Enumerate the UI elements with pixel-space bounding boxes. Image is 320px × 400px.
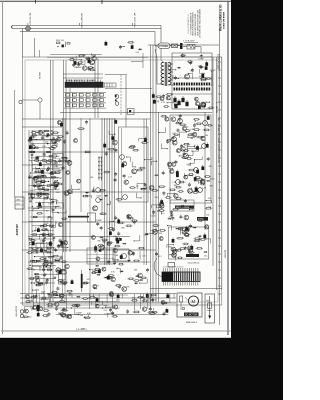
capacitor CLA150 (42, 187, 44, 189)
small box mid (128, 109, 135, 115)
svg-text:AD-R450: AD-R450 (15, 224, 19, 236)
wire stage row LA16 (30, 193, 50, 195)
svg-text:220: 220 (45, 141, 48, 143)
wire w-BSx19 (97, 301, 102, 305)
power rail wire (172, 56, 212, 58)
right upper block outline (170, 115, 211, 203)
resistor R-LAx37 (31, 132, 37, 134)
resistor R-RL33 (159, 230, 166, 232)
resistor R-PS34 (163, 106, 169, 108)
transistor Q-RB10 (188, 246, 192, 250)
capacitor CLA110 (34, 171, 36, 173)
capacitor CLA71 (31, 154, 33, 156)
wire w-RB7 (206, 239, 211, 244)
transistor Q-R186 (184, 154, 189, 159)
transformer T901 core (164, 62, 166, 86)
switch contact S2-16 (86, 104, 90, 107)
wire stage row LB14 (35, 273, 58, 275)
resistor R-RM18 (152, 225, 159, 227)
transistor Q-BSx56 (25, 295, 29, 299)
wire bottom riser 24 (147, 294, 149, 309)
resistor R-LBx39 (35, 284, 42, 286)
resistor R-RA60 (175, 198, 183, 200)
resistor R-LBx16 (47, 256, 54, 258)
capacitor CLB61 (44, 237, 46, 239)
wire w-RA75 (192, 149, 199, 151)
resistor R-LAx51 (53, 182, 60, 184)
resistor R-LBx24 (41, 229, 48, 231)
capacitor C-MLa24 (63, 139, 66, 143)
meter diode D14 (101, 173, 103, 176)
svg-text:1000P: 1000P (176, 228, 182, 230)
capacitor C-LAx77 (47, 133, 50, 137)
wire w-RM23 (180, 228, 185, 233)
resistor R-LBx6 (30, 240, 36, 242)
parts row above board (57, 42, 60, 44)
wire w-CAB24 (137, 193, 142, 198)
transistor Q-MLa23 (59, 294, 64, 299)
capacitor C-CB20 (96, 222, 99, 226)
wire w-RL12 (159, 127, 165, 132)
svg-text:0.022: 0.022 (48, 204, 53, 206)
transistor Q-RA95 (188, 188, 193, 193)
transistor Q-BSx18 (114, 305, 118, 309)
junction LB51 (48, 234, 49, 235)
wire w-TC2 (120, 47, 124, 49)
transistor Q-RB3 (185, 233, 189, 237)
capacitor C-RA92 (183, 152, 186, 156)
wire horizontal bus H17 (148, 44, 219, 46)
capacitor C-CB6 (103, 239, 106, 243)
wire AC line 3 (20, 31, 155, 33)
resistor R-LAx4 (32, 178, 39, 180)
wire vertical bus V13 (152, 45, 154, 302)
transistor Q-CB39 (100, 245, 105, 250)
resistor R-PS32 (155, 96, 162, 98)
electrolytic C-LBx52 (49, 242, 52, 246)
junction LB41 (47, 230, 48, 231)
vertical stub BS21 (91, 302, 93, 305)
capacitor C-RA76 (178, 117, 181, 121)
resistor R-PS20 (200, 79, 207, 81)
wire stage row LB4 (34, 229, 54, 231)
transistor Q-CAL8 (93, 206, 98, 211)
wire bottom riser 18 (106, 294, 108, 303)
capacitor C-PS25 (174, 76, 177, 80)
wire w-CC1 (140, 278, 148, 283)
wire sw link (160, 26, 162, 44)
svg-text:POWER: POWER (159, 45, 168, 48)
capacitor C-TL11 (87, 67, 90, 71)
junction LB140 (45, 274, 46, 275)
diode D-RA85 (206, 180, 210, 182)
transistor Q-MLc17 (96, 257, 100, 261)
vertical stub LA102 (32, 169, 34, 171)
junction LB130 (51, 269, 52, 270)
wire stage row BS1 (49, 294, 128, 296)
wire horizontal bus H1 (22, 118, 150, 120)
wire w-TL26 (74, 59, 79, 64)
resistor R-BSy10 (42, 315, 49, 317)
resistor R-RA58 (194, 177, 201, 179)
switch S901 POWER (158, 43, 170, 49)
wire w-BSx61 (56, 293, 60, 295)
transistor Q-R205 (203, 121, 208, 126)
wire stage row LB9 (36, 251, 53, 253)
capacitor CBS40 (59, 312, 61, 314)
resistor R-PS1 (205, 78, 211, 80)
capacitor C-BSy13 (109, 308, 112, 312)
vertical stub LB40 (47, 230, 49, 233)
svg-text:100: 100 (38, 197, 41, 199)
junction LB31 (52, 225, 53, 226)
capacitor C-RB36 (184, 246, 187, 250)
wire horizontal bus H3 (28, 139, 62, 141)
wire w-LBx50 (45, 257, 50, 263)
electrolytic C-LAx18 (41, 170, 44, 174)
vertical stub BS30 (133, 308, 135, 310)
resistor R-CB11 (97, 245, 104, 247)
electrolytic C-PS37 (153, 100, 156, 104)
bias table (87, 248, 115, 264)
capacitor C905 electrolytic (185, 102, 188, 106)
vertical stub LB121 (42, 265, 44, 268)
wire stage row LA15 (34, 189, 59, 191)
capacitor C-BSx37 (163, 312, 166, 316)
electrolytic C-TC5 (105, 42, 108, 46)
svg-text:1000P: 1000P (198, 59, 204, 61)
junction LA201 (46, 210, 47, 211)
svg-text:R28: R28 (42, 292, 45, 294)
transistor Q-MLa14 (67, 189, 71, 193)
electrolytic C-CAB26 (144, 138, 147, 142)
capacitor C-MLa27 (61, 166, 64, 170)
svg-text:100: 100 (206, 215, 209, 217)
capacitor C-MLc20 (118, 285, 121, 289)
capacitor CLB60 (53, 237, 55, 239)
diode D-RB30 (203, 251, 207, 253)
wire stage row BS4 (56, 314, 169, 316)
resistor R-BSx15 (30, 296, 37, 298)
transistor Q-RA63 (172, 140, 177, 145)
capacitor C-RA70 (180, 144, 183, 148)
electrolytic C-PS23 (198, 106, 201, 110)
transistor Q-LAx42 (38, 130, 42, 134)
resistor R-CAB21 (139, 167, 146, 169)
resistor R-RA86 (196, 179, 203, 181)
svg-text:MMI-6H2LK: MMI-6H2LK (186, 322, 198, 324)
resistor RLB111 (55, 260, 59, 262)
switch contact S2-10 (86, 99, 90, 102)
wire w-RA18 (195, 145, 201, 149)
wire w-MLa16 (62, 242, 68, 248)
wire stage row LB11 (36, 260, 51, 262)
transistor Q-BSx10 (55, 302, 59, 306)
wire stage row LA4 (33, 143, 58, 145)
resistor R-CC24 (91, 272, 98, 274)
resistor R-LBx12 (26, 268, 33, 270)
wire bottom riser 5 (173, 294, 175, 298)
switch contact S2-14 (72, 104, 76, 107)
IC U1 body (162, 272, 200, 282)
transistor Q-TL6 (90, 60, 95, 65)
resistor R-RL8 (166, 139, 172, 141)
thermal fuse (187, 45, 195, 50)
svg-text:DC MOTOR: DC MOTOR (185, 314, 198, 316)
wire middle rail 3 (80, 118, 82, 212)
svg-text:AC 120V 60Hz: AC 120V 60Hz (133, 13, 136, 27)
right bus tick 13 (218, 157, 221, 159)
wire w-LBz4 (55, 298, 62, 302)
capacitor C904 electrolytic (181, 98, 184, 102)
electrolytic C-MLa5 (60, 241, 63, 245)
AC outlet P1 (26, 26, 31, 31)
wire w-BSx57 (142, 298, 145, 302)
svg-text:100: 100 (30, 300, 33, 302)
resistor R-LAx61 (50, 146, 57, 148)
capacitor C-LAx71 (47, 166, 50, 170)
dark bits center (116, 238, 119, 241)
resistor R-LAx24 (36, 175, 44, 177)
svg-text:560: 560 (155, 197, 158, 199)
resistor R-LBx14 (39, 258, 46, 260)
transistor Q-RA50 (201, 136, 205, 140)
transistor Q-RL21 (159, 202, 163, 206)
capacitor C-LBx60 (46, 278, 49, 282)
capacitor C-BSx14 (55, 307, 58, 311)
wire w-LAx55 (37, 133, 44, 137)
wire w-CAL6 (109, 131, 115, 134)
meter diode D11 (101, 161, 103, 164)
transistor Q-BSx13 (142, 307, 146, 311)
transistor Q-RA43 (170, 169, 174, 173)
transistor Q-CB1 (128, 251, 132, 255)
vertical stub LA90 (56, 165, 58, 168)
wire stage row LA20 (29, 210, 51, 212)
transistor Q-CC18 (122, 287, 127, 292)
transistor Q-R196 (194, 168, 199, 173)
capacitor C-RL28 (155, 252, 158, 256)
relay box (113, 249, 129, 261)
wire head link 1 (63, 73, 103, 75)
electrolytic C-BSx6 (117, 295, 120, 299)
capacitor C-RL19 (166, 140, 169, 144)
transistor Q-RA48 (192, 132, 197, 137)
electrolytic C-BSx62 (37, 308, 40, 312)
diode D-CC29 (135, 275, 139, 277)
vertical stub LA181 (42, 202, 44, 205)
svg-text:100: 100 (208, 207, 211, 209)
capacitor C-RM13 (171, 216, 174, 220)
wire w-RM4 (189, 226, 192, 230)
resistor R-CAB17 (129, 187, 136, 189)
capacitor C-PS210 (203, 104, 206, 108)
capacitor C-LBx2 (50, 261, 53, 265)
capacitor C-RM19 (170, 210, 173, 214)
electrolytic C-CC26 (59, 270, 62, 274)
transistor Q-RA65 (176, 149, 180, 153)
capacitor C-LBx20 (42, 233, 45, 237)
resistor R-MLc22 (117, 222, 124, 224)
connector J3 (20, 310, 23, 313)
resistor R-RB2 (182, 243, 189, 245)
capacitor C901 electrolytic (173, 98, 176, 102)
wire w-RA31 (180, 132, 187, 138)
resistor R-RL31 (151, 230, 158, 232)
wire bottom riser 16 (50, 294, 52, 298)
resistor RLA60 (31, 151, 35, 153)
resistor R-LAx21 (40, 175, 47, 177)
wire w-BSy2 (24, 307, 31, 313)
wire w-RL29 (152, 205, 159, 208)
resistor RLB113 (44, 260, 48, 262)
wire stage row LA13 (34, 180, 50, 182)
wire bottom riser 7 (122, 294, 124, 298)
resistor R-CAB14 (129, 145, 136, 147)
resistor R-RB18 (181, 232, 187, 234)
wire stage row LB1 (30, 216, 52, 218)
resistor R-LBx47 (42, 225, 49, 227)
transistor Q-ctr2 (96, 198, 101, 203)
wire stage row LB3 (32, 225, 55, 227)
capacitor C-LAx12 (54, 160, 57, 164)
resistor R-MLa12 (57, 136, 64, 138)
capacitor C-BSx35 (76, 304, 79, 308)
transistor Q-PS25 (200, 102, 205, 107)
transistor Q-c1 (120, 155, 125, 160)
capacitor C-LAx59 (51, 200, 54, 204)
resistor R-RM1 (205, 207, 213, 209)
capacitor C-RL4 (162, 171, 165, 175)
wire stage row LB2 (29, 220, 52, 222)
transistor Q-CB19 (127, 215, 131, 219)
wire w-RA82 (195, 181, 199, 184)
wire vertical bus V4 (65, 60, 67, 252)
vertical stub LB21 (50, 221, 52, 224)
resistor RLA160 (29, 193, 33, 195)
transistor Q-CB43 (107, 242, 111, 246)
right bus tick 12 (218, 149, 221, 151)
top border tick 2 (35, 0, 37, 4)
vertical stub LB10 (51, 217, 53, 220)
capacitor CBS11 (47, 293, 49, 295)
wire stub UNSWITCHED (78, 23, 80, 26)
electrolytic C-PS33 (152, 94, 155, 98)
resistor R-LAx30 (49, 173, 55, 175)
right lower block outline (169, 227, 209, 259)
wire w-RL13 (170, 255, 176, 261)
svg-text:0.022: 0.022 (210, 179, 215, 181)
junction BS31 (71, 307, 72, 308)
right bus tick 28 (218, 277, 221, 279)
svg-text:0.022: 0.022 (40, 241, 45, 243)
resistor R-BSx16 (151, 311, 157, 313)
capacitor C-LBx29 (42, 239, 45, 243)
wire w-CAL10 (107, 201, 110, 205)
wire w-LBx3 (47, 245, 51, 251)
switch contact S2-3 (79, 94, 83, 97)
resistor R-BSx47 (47, 305, 54, 307)
svg-text:220: 220 (87, 279, 90, 281)
capacitor C-CAB15 (144, 183, 147, 187)
motor label bar (184, 313, 199, 317)
capacitor C-PS18 (199, 65, 202, 69)
svg-text:100: 100 (67, 222, 70, 224)
capacitor C-RB21 (187, 227, 190, 231)
transistor Q-PS29 (195, 102, 199, 106)
diode D-CB24 (127, 260, 131, 262)
junction BS32 (102, 307, 103, 308)
resistor R-CC2 (133, 280, 140, 282)
svg-text:LINE IN: LINE IN (38, 72, 40, 80)
capacitor C-RA15 (177, 128, 180, 132)
svg-text:560: 560 (116, 299, 119, 301)
vertical stub LA10 (41, 131, 43, 133)
transistor Q-BSy11 (60, 313, 64, 317)
capacitor C-CB3 (100, 226, 103, 230)
electrolytic C-PS10 (205, 62, 208, 66)
junction LA192 (55, 206, 56, 207)
transistor Q-BSx8 (32, 306, 36, 310)
capacitor C-LAx43 (33, 184, 36, 188)
svg-text:R56: R56 (36, 289, 39, 291)
vertical stub LB62 (53, 239, 55, 241)
resistor R-RA20 (178, 191, 184, 193)
electrolytic C-RB6 (190, 246, 193, 250)
resistor RLA61 (30, 151, 34, 153)
wire AC to board (21, 29, 23, 58)
wire middle rail 2 (64, 118, 66, 300)
capacitor C-BSx39 (149, 307, 152, 311)
capacitor C-CB37 (112, 228, 115, 232)
electrolytic C-RB12 (203, 235, 206, 239)
transistor Q-MLa2 (63, 241, 67, 245)
resistor R-PS22 (200, 78, 208, 80)
center right rails (143, 119, 145, 265)
electrolytic C-RA29 (195, 187, 198, 191)
svg-text:C12: C12 (104, 310, 107, 312)
capacitor C-CB13 (118, 237, 121, 241)
right bus tick 21 (218, 221, 221, 223)
resistor R-RA89 (186, 158, 193, 160)
wire w-MLb8 (86, 196, 92, 198)
vertical stub LB13 (52, 217, 54, 219)
transistor Q-MLa15 (57, 121, 61, 125)
right bus tick 8 (218, 117, 221, 119)
wire bottom riser 25 (169, 294, 171, 303)
wire vertical bus V16 (204, 112, 206, 230)
resistor RLB71 (29, 243, 33, 245)
wire w-CAB19 (145, 157, 152, 160)
resistor RLB12 (33, 216, 37, 218)
capacitor C-CB10 (132, 251, 135, 255)
resistor R-CAB6 (140, 188, 147, 190)
resistor R-LAx85 (56, 183, 63, 185)
junction LB100 (34, 256, 35, 257)
wire stage row LB8 (29, 247, 55, 249)
junction LB132 (33, 269, 34, 270)
AC plug cord (11, 26, 13, 29)
wire w-BSx36 (66, 313, 71, 316)
resistor R-CB22 (138, 247, 145, 249)
resistor R-MLc15 (118, 263, 124, 265)
resistor R-CAB9 (132, 149, 139, 151)
diode D-PS8 (177, 67, 181, 69)
resistor R-LAx14 (43, 193, 50, 195)
resistor R-CC21 (115, 285, 122, 287)
wire horizontal bus H13 (150, 288, 222, 290)
wire w-RB24 (176, 228, 182, 233)
